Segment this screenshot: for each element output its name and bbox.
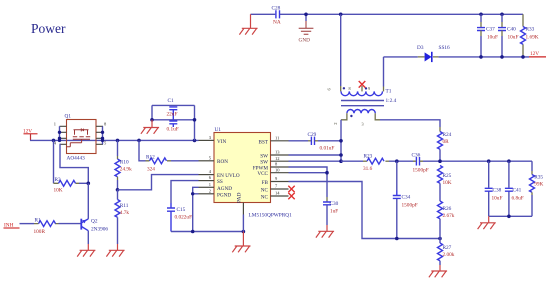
wire output rail 12V (384, 56, 530, 58)
pin stubs right 5-8 (96, 126, 103, 144)
capacitor C40 (498, 14, 518, 57)
resistor R25 (438, 166, 452, 202)
T1 core (341, 101, 384, 106)
capacitor C38 (485, 161, 503, 216)
svg-text:NA: NA (273, 20, 281, 26)
pin 10 stub (271, 172, 289, 174)
ground chassis below R11 (106, 244, 124, 257)
svg-text:1uF: 1uF (330, 209, 338, 215)
capacitor C30 (323, 197, 339, 225)
svg-text:AGND: AGND (217, 186, 232, 192)
svg-text:C41: C41 (513, 188, 522, 194)
polarity dot secondary (343, 87, 345, 89)
svg-text:10uF: 10uF (508, 35, 519, 41)
wire SW pin12 (289, 160, 342, 162)
node junction top rail (304, 13, 504, 17)
resistor R26 (438, 201, 455, 239)
svg-text:Q1: Q1 (65, 114, 72, 120)
ground chassis below C30 (316, 225, 334, 238)
svg-text:LM5150QPWPRQ1: LM5150QPWPRQ1 (249, 213, 293, 219)
svg-text:10uF: 10uF (487, 35, 498, 41)
svg-text:C34: C34 (402, 194, 411, 200)
resistor R3 (54, 177, 89, 194)
svg-text:C36: C36 (412, 153, 421, 159)
ground chassis below Q2 (77, 244, 95, 257)
wire Q1 drain bus (102, 126, 104, 144)
svg-text:C1: C1 (168, 98, 175, 104)
wire Q1 gate route (60, 144, 89, 183)
svg-text:VCC: VCC (257, 171, 268, 177)
svg-text:11: 11 (275, 135, 279, 140)
svg-text:C38: C38 (493, 188, 502, 194)
capacitor C1 upper 22uF (169, 107, 177, 120)
svg-text:3: 3 (362, 122, 364, 127)
pin 12 stub (271, 160, 289, 162)
pin 5 stub (199, 160, 215, 162)
pin stubs left 1-4 (60, 126, 67, 144)
wire EN UVLO route (118, 175, 199, 190)
svg-text:1: 1 (54, 121, 56, 126)
svg-text:10: 10 (275, 167, 280, 172)
svg-text:C29: C29 (308, 132, 317, 138)
svg-text:GND: GND (299, 38, 311, 44)
transistor Q1 AO4443 PMOS (54, 114, 107, 162)
pin 4 stub (199, 174, 215, 176)
wire main 12V rail (30, 139, 199, 141)
svg-text:R25: R25 (443, 173, 452, 179)
svg-text:C30: C30 (330, 201, 339, 207)
svg-text:1500pF: 1500pF (413, 167, 429, 173)
wire FPWM to VCC (289, 167, 328, 173)
wire primary right to R24 (375, 113, 380, 120)
svg-text:2.67k: 2.67k (443, 213, 455, 219)
svg-text:SW: SW (260, 153, 268, 159)
svg-text:BST: BST (258, 139, 268, 145)
wire AGND PGND (193, 187, 199, 231)
node SW bus junctions (339, 139, 343, 163)
PAD pin stub (242, 203, 244, 215)
wire secondary left drop (340, 14, 342, 86)
svg-text:6.8uF: 6.8uF (512, 195, 524, 201)
wire SS to C15 (171, 181, 199, 203)
resistor R27 (438, 239, 455, 266)
svg-text:R12: R12 (146, 154, 155, 160)
ground chassis below C38 (478, 216, 496, 229)
svg-text:RON: RON (217, 159, 228, 165)
node FB junctions (395, 237, 442, 241)
svg-text:0.01uF: 0.01uF (320, 146, 335, 152)
resistor R10 (115, 140, 132, 189)
node Q1 bus junctions (58, 131, 104, 142)
svg-text:C37: C37 (486, 27, 495, 33)
wire secondary right up to diode (383, 87, 385, 92)
wire analog ground rail (171, 231, 243, 233)
wire PAD drop (242, 215, 244, 232)
wire VCC (289, 173, 328, 197)
svg-text:9: 9 (368, 86, 370, 91)
svg-text:PGND: PGND (217, 192, 231, 198)
svg-text:VIN: VIN (217, 139, 226, 145)
wire primary left step to SW node (341, 113, 347, 120)
pin 9 stub (271, 181, 289, 183)
svg-text:FB: FB (262, 180, 269, 186)
svg-text:0.1uF: 0.1uF (167, 126, 179, 132)
svg-text:4.7k: 4.7k (120, 210, 130, 216)
svg-text:22uF: 22uF (167, 111, 178, 117)
svg-text:SS: SS (217, 179, 223, 185)
svg-text:R24: R24 (443, 132, 452, 138)
capacitor C36 (412, 153, 441, 174)
op-amp U1 LM5150 controller (199, 127, 295, 219)
ground chassis below C1 (141, 120, 159, 134)
pin 13 stub (271, 154, 289, 156)
port 12V right (529, 51, 546, 57)
svg-text:PAD: PAD (237, 192, 243, 203)
svg-text:10uF: 10uF (492, 195, 503, 201)
svg-text:1:2.4: 1:2.4 (386, 98, 397, 104)
T1 secondary winding (341, 91, 382, 95)
ground GND earth (299, 14, 314, 43)
svg-text:R10: R10 (120, 160, 129, 166)
svg-text:14: 14 (275, 191, 280, 196)
resistor R35 (530, 161, 544, 216)
capacitor C41 (505, 161, 524, 216)
ground chassis below R27 (429, 265, 447, 277)
svg-text:R23: R23 (364, 154, 373, 160)
svg-text:1.69K: 1.69K (526, 35, 539, 41)
wire FB route (289, 182, 441, 239)
wire SW pin13 (289, 154, 342, 156)
transformer T1 (327, 14, 441, 161)
svg-text:31.6: 31.6 (363, 166, 373, 172)
svg-text:NC: NC (261, 187, 269, 193)
svg-text:SS16: SS16 (439, 45, 451, 51)
pin 11 stub (271, 140, 289, 142)
svg-text:Q2: Q2 (91, 219, 98, 225)
port 12V input (23, 129, 38, 141)
inner mosfet symbol (74, 130, 89, 135)
svg-text:R27: R27 (443, 245, 452, 251)
svg-text:T1: T1 (386, 89, 392, 95)
svg-text:Power: Power (31, 21, 66, 36)
svg-text:99K: 99K (534, 182, 543, 188)
capacitor C28 (272, 6, 281, 26)
svg-text:2N3906: 2N3906 (91, 226, 108, 232)
svg-text:0.022uF: 0.022uF (175, 215, 193, 221)
capacitor C29 (308, 132, 342, 152)
svg-text:C28: C28 (272, 6, 281, 12)
svg-text:R3: R3 (55, 177, 62, 183)
svg-text:2: 2 (209, 188, 211, 193)
resistor R12 (146, 154, 199, 172)
svg-text:12: 12 (275, 156, 280, 161)
svg-text:R35: R35 (534, 175, 543, 181)
svg-text:1: 1 (209, 182, 211, 187)
svg-text:8: 8 (349, 86, 351, 91)
resistor R33 (521, 14, 539, 57)
svg-text:C15: C15 (177, 207, 186, 213)
pin 8 stub (271, 166, 289, 168)
svg-text:R26: R26 (443, 206, 452, 212)
resistor R11 (115, 190, 129, 244)
svg-text:R11: R11 (120, 203, 129, 209)
T1 primary winding (347, 110, 375, 114)
capacitor C1 lower 0.1uF (169, 121, 177, 127)
wire Q1 source bus (59, 126, 61, 140)
svg-text:13: 13 (275, 150, 280, 155)
capacitor C15 (167, 203, 192, 232)
center tap stub with no-connect X (361, 86, 363, 91)
wire down to R12 (139, 140, 146, 160)
svg-text:324: 324 (147, 166, 155, 172)
pin 3 stub (199, 139, 215, 141)
svg-text:0R: 0R (443, 139, 450, 145)
svg-text:12V: 12V (530, 51, 539, 57)
wire bottom output gnd rail (489, 215, 532, 217)
resistor R23 (341, 154, 413, 172)
pin 1 stub (199, 186, 215, 188)
svg-text:R1: R1 (35, 217, 42, 223)
wire down to R3 (53, 140, 55, 183)
pin 6 stub (199, 180, 215, 182)
polarity dot primary (350, 115, 352, 117)
pin 2 stub (199, 193, 215, 195)
svg-text:AO4443: AO4443 (67, 156, 86, 162)
transistor Q2 2N3906 (81, 183, 108, 244)
capacitor C37 (477, 14, 498, 57)
svg-text:100R: 100R (34, 229, 46, 235)
ground chassis top-left (239, 14, 257, 34)
svg-text:D3: D3 (417, 45, 424, 51)
svg-text:U1: U1 (215, 127, 222, 133)
wire top ground rail (251, 13, 524, 15)
pin 7 stub with no-connect X (271, 188, 289, 190)
svg-text:10K: 10K (54, 188, 63, 194)
wire mid feedback rail (440, 160, 532, 162)
ground chassis below PAD (232, 232, 250, 253)
resistor R1 (34, 217, 81, 235)
svg-text:C40: C40 (507, 27, 516, 33)
svg-text:10K: 10K (443, 180, 452, 186)
diode D3 SS16 (417, 45, 450, 62)
svg-text:1500pF: 1500pF (402, 202, 418, 208)
node main rail junctions (52, 139, 197, 143)
pin 14 stub with no-connect X (271, 195, 289, 197)
svg-text:2.00k: 2.00k (443, 252, 455, 258)
node junctions output rail (479, 55, 525, 59)
svg-text:24.9k: 24.9k (120, 167, 132, 173)
capacitor C34 (393, 161, 418, 238)
wire BST to C29 (289, 140, 309, 142)
svg-text:INH: INH (4, 222, 14, 228)
capacitor C1 block (150, 98, 196, 141)
svg-text:NC: NC (261, 194, 269, 200)
resistor R24 (438, 127, 452, 161)
svg-text:R33: R33 (526, 27, 535, 33)
port INH (4, 222, 35, 228)
